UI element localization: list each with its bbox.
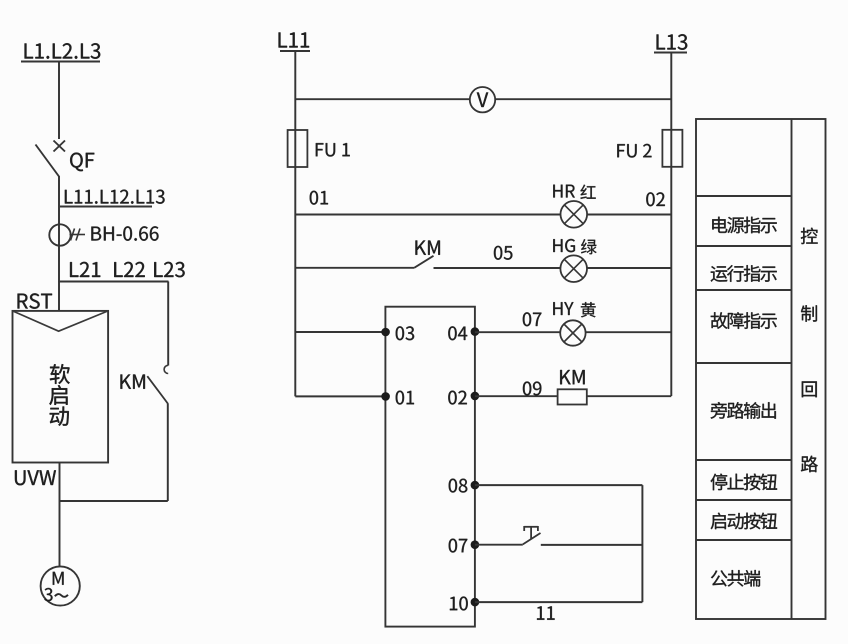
legend table frame (696, 119, 826, 619)
label 03 (396, 326, 414, 340)
voltmeter V (470, 87, 495, 112)
terminal block box (385, 307, 475, 627)
label 07 lower (449, 539, 468, 553)
wire 07 to button (475, 544, 523, 546)
junction dot terminal 02 (471, 392, 480, 401)
wire 03 row (295, 331, 385, 333)
label 10 (450, 597, 468, 611)
label QF (70, 153, 94, 172)
label 02 upper (646, 192, 665, 206)
wire right rail L13 (670, 53, 672, 397)
label FU 1 (316, 143, 350, 156)
node L13 label (654, 34, 687, 52)
junction dot terminal 07 (471, 540, 480, 549)
wire 08 row (475, 484, 643, 486)
wire button to loop (541, 544, 643, 546)
label UVW (15, 470, 56, 485)
node L11 label (279, 32, 310, 51)
wire voltmeter row right (496, 98, 672, 100)
label RST (18, 293, 52, 308)
wire left rail to 01 (295, 395, 385, 397)
label 制 (vertical 控制回路) (801, 305, 817, 321)
soft starter box (13, 311, 109, 463)
wire L21 bus to soft starter (58, 282, 60, 312)
label 01 upper (310, 191, 328, 205)
node L21 L22 L23 label (59, 262, 185, 282)
label 运行指示 (711, 265, 777, 282)
junction dot terminal 10 (471, 598, 480, 607)
label HG 绿 (553, 239, 596, 254)
motor M 3~ (41, 566, 80, 605)
lamp HR (561, 201, 588, 228)
wire 10 row (475, 601, 643, 603)
contactor KM bypass fixed contact arc (164, 365, 168, 373)
fuse FU1 (288, 130, 308, 167)
label 01 lower (396, 391, 414, 405)
label 回 (vertical 控制回路) (802, 381, 817, 397)
wire button loop right vertical (641, 485, 643, 602)
wire HY to right rail (586, 331, 672, 333)
label 故障指示 (711, 312, 777, 329)
label 11 (537, 606, 555, 619)
label FU 2 (617, 144, 651, 158)
wire bypass branch from L21 bus (167, 282, 169, 366)
lamp HG (560, 255, 587, 282)
junction dot terminal 04 (471, 327, 480, 336)
label 启动按钮 (711, 513, 777, 530)
label KM coil (560, 370, 584, 384)
button SB actuator (524, 526, 538, 539)
label HY 黄 (553, 302, 595, 317)
lamp HY (560, 320, 585, 345)
contactor KM bypass blade (147, 376, 168, 403)
breaker QF contact X mark (54, 141, 66, 152)
node L1.L2.L3 supply bus label (21, 43, 100, 61)
contact KM blade (414, 256, 433, 268)
node L11.L12.L13 label (60, 190, 165, 207)
wire HG row right (587, 267, 671, 269)
label 02 lower (448, 391, 467, 405)
wire soft starter output to motor (59, 463, 61, 567)
label 07 upper (523, 312, 542, 326)
wire HR row left (295, 214, 560, 216)
junction dot terminal 08 (471, 481, 480, 490)
wire left rail L11 (294, 51, 296, 396)
wire bypass to motor junction (167, 403, 169, 501)
label 路 (vertical 控制回路) (801, 456, 818, 473)
label 05 (494, 246, 512, 260)
legend table row dividers (696, 196, 792, 540)
current transformer BH-0.66 (49, 224, 70, 245)
wire QF to BH (58, 176, 60, 225)
label 08 (449, 479, 468, 493)
wire BH to L21 bus (58, 246, 60, 283)
label 软启动 (soft start) (49, 364, 69, 426)
wire HG row middle (434, 267, 561, 269)
fuse FU2 (662, 130, 682, 167)
breaker QF blade (36, 145, 60, 177)
junction dot terminal 03 (381, 328, 390, 337)
label 停止按钮 (711, 474, 777, 491)
label 公共端 (711, 570, 761, 587)
wire HG row left (295, 267, 414, 269)
label KM bypass (120, 375, 144, 389)
wire voltmeter row left (295, 98, 469, 100)
junction dot terminal 01 (381, 392, 390, 401)
label 控 (vertical 控制回路) (801, 228, 818, 244)
label # BH-0.66 (70, 226, 159, 240)
button SB start blade (523, 533, 541, 544)
label 04 (448, 326, 467, 340)
wire 04 to HY lamp (475, 331, 561, 333)
label 旁路输出 (711, 402, 776, 419)
wire 02 to KM coil (475, 395, 558, 397)
wire HR row right (587, 214, 671, 216)
label 09 (523, 382, 541, 396)
wire L1 drop to QF (58, 62, 60, 140)
label 电源指示 (712, 217, 776, 234)
label HR 红 (553, 185, 595, 199)
wire motor junction horizontal (60, 500, 168, 502)
wire KM coil to right rail (587, 395, 672, 397)
coil KM (558, 389, 587, 404)
label KM contact (415, 241, 439, 255)
